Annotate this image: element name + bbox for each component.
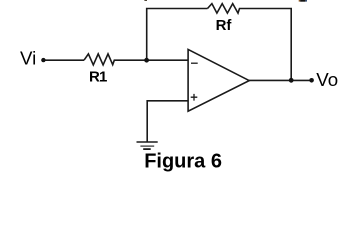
svg-text:Vi: Vi <box>20 48 36 69</box>
svg-text:Rf: Rf <box>216 17 233 34</box>
svg-text:Vo: Vo <box>316 69 338 90</box>
svg-text:Figura 6: Figura 6 <box>144 151 222 173</box>
svg-text:R1: R1 <box>89 69 107 86</box>
